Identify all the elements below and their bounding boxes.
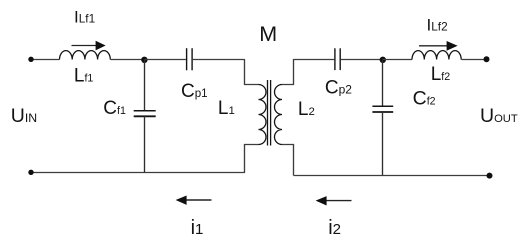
current arrow i2 [316,196,352,205]
svg-text:i1: i1 [191,217,204,239]
wire: top-left from input terminal to Lf1 [31,59,60,61]
node output positive terminal [484,56,490,62]
wire: Cf1 down to bottom rail [144,116,146,172]
svg-text:Lf2: Lf2 [431,64,451,85]
svg-text:UIN: UIN [11,105,37,127]
wire: node B down to Cf2 [382,60,384,106]
node output negative terminal [487,173,493,179]
wire: node A to Cp1 [145,59,186,61]
wire: node B to Lf2 [383,59,413,61]
wire: Cp1 to top corner of L1 branch [193,59,245,61]
svg-text:i2: i2 [328,217,341,239]
transformer core [268,80,271,146]
capacitor Cp1 [187,48,193,70]
capacitor Cf1 [134,111,156,117]
svg-text:L2: L2 [298,99,315,120]
wire: vertical down to L1 top jog [245,60,259,85]
inductor Lf1 [60,51,111,60]
wire: Lf1 to node A [110,59,144,61]
svg-text:ILf1: ILf1 [74,8,95,27]
wire: bottom rail of secondary loop [294,175,490,177]
svg-text:UOUT: UOUT [480,105,518,127]
inductor Lf2 [412,51,461,60]
wire: L1 bottom jog and down to bottom rail [245,145,259,173]
wire: bottom rail of primary loop [31,172,245,174]
svg-text:L1: L1 [218,98,235,119]
svg-text:M: M [259,22,277,46]
inductor L1 primary winding [259,85,267,145]
current arrow ILf1 [72,41,106,51]
capacitor Cp2 [335,48,340,70]
capacitor Cf2 [372,106,393,112]
inductor L2 secondary winding [275,85,282,145]
svg-text:ILf2: ILf2 [427,15,448,34]
wire: node A down to Cf1 [144,60,146,111]
wire: L2 top jog up to secondary top rail [282,60,334,85]
node B junction [380,57,386,63]
node input positive terminal [28,57,33,62]
node A junction [141,57,147,63]
wire: L2 bottom jog and down to bottom rail [282,145,294,176]
node input negative terminal [28,170,33,175]
svg-text:Lf1: Lf1 [74,66,94,87]
current arrow i1 [176,196,212,205]
wire: Cp2 to node B [341,59,383,61]
svg-text:Cf1: Cf1 [103,98,126,119]
current arrow ILf2 [419,41,458,51]
svg-text:Cp2: Cp2 [325,78,352,99]
svg-text:Cf2: Cf2 [413,87,436,109]
svg-text:Cp1: Cp1 [181,81,208,102]
wire: Lf2 to output terminal [461,59,486,61]
wire: Cf2 down to secondary bottom rail [382,112,384,176]
